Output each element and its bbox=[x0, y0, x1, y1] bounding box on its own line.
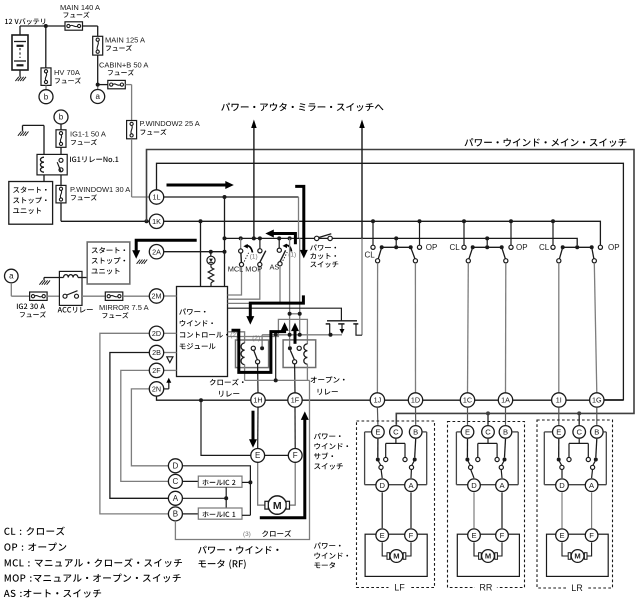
connector 1A bbox=[498, 393, 512, 407]
legend AS bbox=[4, 589, 101, 597]
wire stub OP2 bbox=[510, 221, 512, 245]
contact CL2 bbox=[462, 245, 466, 249]
wire nest 2N to D bbox=[131, 389, 168, 466]
node a (circle) bbox=[91, 90, 105, 104]
svg-text:LR: LR bbox=[571, 583, 583, 593]
arrow to mirror switch right bbox=[359, 120, 365, 239]
connector 1L bbox=[149, 190, 163, 204]
svg-text:M: M bbox=[273, 500, 282, 512]
label P.WINDOW1 30 A fuse bbox=[70, 185, 130, 201]
svg-text:E: E bbox=[380, 531, 385, 540]
svg-text:2N: 2N bbox=[152, 385, 161, 394]
node dot mirrorL bbox=[252, 236, 256, 240]
connector A (LR) bbox=[585, 479, 598, 492]
connector D (LF) bbox=[376, 479, 389, 492]
fuse IG2 30A bbox=[30, 292, 47, 300]
arrow to mirror switch left bbox=[251, 120, 257, 239]
connector 2B bbox=[149, 345, 163, 359]
coil open relay bbox=[304, 344, 308, 381]
coil close relay bbox=[241, 343, 245, 380]
connector 2A bbox=[149, 245, 163, 259]
connector E (RF) bbox=[251, 449, 265, 463]
node battery junction bbox=[44, 24, 48, 28]
node a junction bbox=[96, 83, 100, 87]
wire FET source rail bbox=[262, 335, 342, 346]
legend MOP bbox=[5, 574, 181, 583]
wire open relay to 1F bbox=[294, 364, 296, 393]
unit RR motor leads bbox=[474, 542, 502, 556]
svg-text:MAIN 140 A: MAIN 140 A bbox=[60, 3, 100, 12]
connector C (RF) bbox=[168, 474, 182, 488]
wire drop to 1J bbox=[376, 263, 378, 393]
svg-text:a: a bbox=[95, 92, 100, 101]
wire 1G to B-LR bbox=[596, 407, 598, 425]
switch AS bbox=[277, 238, 285, 265]
switch MCL bbox=[239, 238, 244, 266]
wire 1J to E-LF bbox=[376, 407, 379, 425]
wire switch rail bbox=[225, 238, 578, 245]
unit RR E blade bbox=[465, 439, 474, 478]
wire 1K rail bbox=[164, 221, 601, 245]
wire 2D to module bbox=[164, 332, 177, 334]
svg-text:M: M bbox=[574, 552, 580, 561]
fuse MAIN 125A bbox=[93, 36, 103, 55]
label AS bbox=[270, 262, 280, 271]
wire open relay drive bbox=[228, 319, 308, 344]
svg-text:2A: 2A bbox=[152, 247, 161, 256]
wire outer (1K net to C pins) bbox=[147, 150, 635, 425]
wire link 313 bbox=[288, 312, 302, 316]
ground IG1 bbox=[18, 125, 44, 154]
svg-text:D: D bbox=[379, 481, 385, 490]
box start-stop unit 2 bbox=[87, 242, 130, 284]
wire AS to module bbox=[228, 266, 281, 304]
contact open relay bbox=[288, 346, 301, 364]
svg-text:(1): (1) bbox=[250, 253, 258, 260]
motor LR bbox=[568, 550, 587, 563]
svg-text:HV 70A: HV 70A bbox=[54, 68, 80, 77]
wire fuse to relay bbox=[60, 147, 62, 154]
wire E return bbox=[201, 400, 251, 455]
svg-text:RR: RR bbox=[479, 583, 492, 593]
marker arrow 2N bbox=[164, 378, 172, 389]
label (1) MCL bbox=[250, 253, 258, 260]
connector F (RF) bbox=[288, 449, 302, 463]
label P.WINDOW2 25 A fuse bbox=[140, 119, 200, 135]
unit LF lower box bbox=[365, 534, 427, 576]
connector 1D bbox=[408, 393, 422, 407]
svg-text:1I: 1I bbox=[556, 396, 562, 405]
label power cut switch bbox=[310, 244, 338, 267]
label RR bbox=[475, 583, 497, 593]
connector F2 (LF) bbox=[405, 529, 418, 542]
unit LR inner box bbox=[544, 432, 606, 485]
connector E2 (LR) bbox=[556, 529, 569, 542]
svg-text:E: E bbox=[375, 428, 380, 437]
node dot OP1 bbox=[418, 219, 422, 223]
relay IG1 No.1 bbox=[37, 154, 67, 175]
label OP2 bbox=[516, 243, 528, 252]
node dot CL1 bbox=[371, 219, 375, 223]
node dot MCL bbox=[239, 236, 243, 240]
svg-text:1K: 1K bbox=[152, 217, 161, 226]
label IG2 30 A fuse bbox=[17, 304, 46, 318]
label MAIN 140 A fuse bbox=[60, 3, 100, 18]
contact OP1 bbox=[417, 245, 421, 249]
svg-text:CL: CL bbox=[539, 243, 550, 252]
node dot LED tap bbox=[209, 250, 213, 254]
wire 1L drop to power cut bbox=[298, 197, 300, 238]
connector B (RR) bbox=[499, 426, 512, 439]
label OP3 bbox=[608, 243, 620, 252]
wire ACC to MIRROR fuse bbox=[82, 295, 105, 297]
unit LF inner box bbox=[365, 432, 427, 485]
wire open relay feed bbox=[289, 238, 291, 346]
door unit LR dashed box bbox=[537, 420, 613, 588]
label CL3 bbox=[539, 243, 550, 252]
fuse MAIN 140A bbox=[65, 22, 83, 30]
svg-text:M: M bbox=[485, 552, 491, 561]
wire coil to unit bbox=[43, 175, 45, 182]
legend MCL bbox=[5, 558, 182, 567]
wire common up bbox=[275, 335, 277, 381]
wire nest 2D to B bbox=[100, 333, 168, 514]
unit LR C switch bbox=[567, 439, 591, 462]
label MIRROR 7.5 A fuse bbox=[99, 303, 149, 319]
wire A link bbox=[182, 487, 228, 508]
label close path bbox=[262, 530, 291, 537]
svg-text:A: A bbox=[173, 494, 179, 503]
wire drop to 1C bbox=[467, 263, 470, 393]
wire drop to 1A bbox=[505, 263, 507, 393]
svg-text:C: C bbox=[576, 428, 582, 437]
wire center stub 2 bbox=[486, 238, 488, 245]
svg-text:OP: OP bbox=[608, 243, 620, 252]
svg-text:1G: 1G bbox=[592, 396, 602, 405]
wire HV branch bbox=[45, 26, 47, 68]
svg-text:b: b bbox=[59, 113, 64, 122]
unit LR B blade bbox=[591, 439, 598, 478]
wire C to IC2 bbox=[182, 480, 198, 482]
wire 1I to E-LR bbox=[558, 407, 560, 425]
svg-text:(2): (2) bbox=[230, 332, 238, 339]
connector 1H bbox=[251, 393, 265, 407]
label MCL bbox=[228, 265, 244, 274]
connector A (RR) bbox=[496, 479, 509, 492]
contact CL1 bbox=[371, 245, 375, 249]
wire MAIN125 down bbox=[97, 55, 99, 89]
connector E2 (RR) bbox=[468, 529, 481, 542]
svg-text:1J: 1J bbox=[374, 396, 382, 405]
connector C (LR) bbox=[573, 426, 586, 439]
label open relay bbox=[311, 376, 345, 395]
node dot E-return bbox=[199, 398, 203, 402]
connector B (LF) bbox=[409, 426, 422, 439]
svg-text:1A: 1A bbox=[501, 396, 510, 405]
label power window sub switch bbox=[314, 433, 348, 470]
svg-text:MAIN 125 A: MAIN 125 A bbox=[105, 35, 145, 44]
node dot CL2 bbox=[462, 219, 466, 223]
svg-text:a: a bbox=[9, 272, 14, 281]
module power window control bbox=[177, 287, 228, 377]
unit RR D to E2 bbox=[473, 492, 475, 528]
label close relay bbox=[210, 379, 244, 397]
label 12V battery bbox=[5, 18, 45, 24]
svg-text:1F: 1F bbox=[291, 396, 300, 405]
label (3) bbox=[243, 531, 251, 538]
box start-stop unit 1 bbox=[9, 182, 53, 225]
svg-text:MIRROR 7.5 A: MIRROR 7.5 A bbox=[99, 303, 149, 312]
switch rocker group3 bbox=[557, 245, 597, 263]
wire stub OP1 bbox=[419, 221, 421, 245]
wire inner (1L net to 1G) bbox=[157, 163, 624, 399]
box hall IC1 bbox=[198, 508, 242, 519]
node dot AS bbox=[277, 236, 281, 240]
marker triangle 2B bbox=[167, 357, 173, 363]
connector B (LR) bbox=[591, 426, 604, 439]
connector E2 (LF) bbox=[376, 529, 389, 542]
node dot center1 bbox=[394, 236, 398, 240]
node dot 2A-end bbox=[223, 250, 227, 254]
svg-text:2F: 2F bbox=[152, 366, 161, 375]
svg-text:CABIN+B 50 A: CABIN+B 50 A bbox=[99, 61, 148, 70]
unit LF A to F2 bbox=[410, 492, 412, 528]
fuse HV 70A bbox=[41, 68, 51, 86]
contact OP3 bbox=[598, 245, 602, 249]
svg-text:D: D bbox=[173, 461, 179, 470]
wire 2N to 1H row bbox=[157, 396, 252, 400]
connector 1I bbox=[552, 393, 566, 407]
svg-text:CL: CL bbox=[365, 251, 376, 260]
svg-text:B: B bbox=[503, 428, 508, 437]
node dot center2 bbox=[485, 236, 489, 240]
relay box close bbox=[236, 340, 269, 368]
motor RR bbox=[479, 550, 498, 563]
wire B return to coils bbox=[175, 380, 309, 539]
thick arrow switch rail left bbox=[265, 230, 295, 245]
wire 1C to E-RR bbox=[467, 407, 469, 425]
connector A (LF) bbox=[405, 479, 418, 492]
fuse P.WINDOW2 25A bbox=[127, 121, 137, 139]
svg-text:P.WINDOW2 25 A: P.WINDOW2 25 A bbox=[140, 119, 200, 128]
svg-text:B: B bbox=[173, 510, 178, 519]
label power window motor RF bbox=[198, 546, 278, 569]
wire drop to 1I bbox=[558, 263, 560, 393]
resistor R (LED) bbox=[208, 264, 214, 286]
node dots source rail bbox=[274, 333, 333, 337]
label OP1 bbox=[426, 243, 438, 252]
label power window main switch bbox=[465, 138, 627, 147]
connector 1C bbox=[460, 393, 474, 407]
svg-text:F: F bbox=[500, 531, 505, 540]
label IG1-1 50 A fuse bbox=[70, 129, 106, 145]
wire C-RR stub bbox=[487, 413, 489, 425]
svg-text:OP: OP bbox=[516, 243, 528, 252]
node dot OP2 bbox=[509, 219, 513, 223]
wire D to ICs bbox=[182, 466, 250, 516]
svg-text:OP: OP bbox=[426, 243, 438, 252]
wire E-F link bbox=[265, 454, 289, 456]
unit LF D to E2 bbox=[381, 492, 383, 528]
relay box open bbox=[283, 340, 316, 368]
fuse MIRROR 7.5A bbox=[105, 292, 123, 300]
arrow actuate MCL bbox=[243, 244, 252, 252]
thick arrow 1H to E bbox=[249, 411, 257, 448]
node a2 (circle) bbox=[5, 269, 19, 283]
ground at battery bbox=[15, 70, 26, 81]
svg-text:D: D bbox=[471, 481, 477, 490]
wire IC1 out bbox=[242, 514, 250, 516]
wire MCL to module bbox=[228, 267, 242, 295]
connector 1F bbox=[288, 393, 302, 407]
svg-text:2D: 2D bbox=[152, 329, 161, 338]
connector E (LR) bbox=[553, 426, 566, 439]
wire MAIN140 to MAIN125 bbox=[83, 26, 98, 36]
wire drop to 1D bbox=[414, 263, 416, 393]
link dotted AS bbox=[283, 252, 287, 261]
label LR bbox=[566, 583, 588, 593]
svg-text:E: E bbox=[255, 451, 260, 460]
wire coil common bbox=[245, 378, 310, 382]
svg-text:C: C bbox=[393, 428, 399, 437]
unit RR inner box bbox=[456, 432, 518, 485]
unit LR A to F2 bbox=[591, 492, 593, 528]
node b2 (circle) bbox=[54, 110, 68, 124]
LED indicator bbox=[207, 252, 215, 265]
box hall IC2 bbox=[198, 476, 242, 487]
wire 2M to module bbox=[164, 295, 177, 297]
wire B to IC1 bbox=[182, 513, 198, 515]
node junction 1K-left bbox=[145, 219, 149, 223]
wire power cut to FET drain bbox=[361, 238, 363, 335]
connector 2N bbox=[149, 382, 163, 396]
legend CL bbox=[4, 527, 64, 536]
wire MOP to module bbox=[228, 267, 260, 300]
svg-text:AS: AS bbox=[270, 262, 280, 271]
node dot CL3 bbox=[551, 219, 555, 223]
label (2) open bbox=[252, 335, 260, 342]
contact close relay bbox=[251, 346, 264, 364]
contact CL3 bbox=[551, 245, 555, 249]
node dot C-RR tap bbox=[486, 411, 490, 415]
svg-text:IG1-1 50 A: IG1-1 50 A bbox=[70, 129, 106, 138]
svg-text:F: F bbox=[589, 531, 594, 540]
svg-text:LF: LF bbox=[394, 583, 405, 593]
label CL1 bbox=[365, 251, 376, 260]
door unit RR dashed box bbox=[448, 422, 525, 588]
wire battery to MAIN140 fuse bbox=[20, 26, 65, 35]
wire F to motor bbox=[287, 462, 295, 505]
wire 2B to module bbox=[164, 352, 177, 354]
wire 2A taps bbox=[164, 251, 225, 253]
fuse CABIN+B 50A bbox=[98, 80, 126, 88]
wire 1L to module bbox=[224, 197, 226, 287]
unit LF E blade bbox=[376, 439, 383, 478]
label power outer mirror switch bbox=[221, 103, 383, 112]
connector 1G bbox=[590, 393, 604, 407]
svg-text:F: F bbox=[409, 531, 414, 540]
switch rocker group1 bbox=[376, 245, 418, 263]
connector D (LR) bbox=[556, 479, 569, 492]
svg-text:B: B bbox=[413, 428, 418, 437]
wire nest 2B to A bbox=[110, 353, 168, 499]
svg-text:P.WINDOW1 30 A: P.WINDOW1 30 A bbox=[70, 185, 130, 194]
unit LR D to E2 bbox=[561, 492, 563, 528]
node dot 1L tap bbox=[223, 195, 227, 199]
wire drop to 1G bbox=[594, 263, 597, 393]
unit LF C switch bbox=[384, 439, 408, 462]
legend OP bbox=[4, 543, 66, 551]
unit LR E blade bbox=[557, 439, 564, 478]
wire close relay drive bbox=[228, 332, 245, 343]
wire 1L rail bbox=[164, 196, 299, 198]
wire HV to b bbox=[45, 85, 47, 89]
fuse P.WINDOW1 30A bbox=[56, 185, 66, 203]
node dot 1K tap bbox=[199, 219, 203, 223]
connector D (RF) bbox=[168, 459, 182, 473]
connector 1J bbox=[370, 393, 384, 407]
door unit LF dashed box bbox=[357, 421, 435, 588]
wire 1F to F bbox=[294, 407, 296, 448]
label MOP bbox=[245, 265, 262, 274]
svg-text:F: F bbox=[293, 451, 298, 460]
wire 1H row line bbox=[251, 399, 623, 401]
label (1) AS bbox=[288, 251, 296, 258]
wire nest 2F to C bbox=[121, 370, 169, 481]
thick arrow 1L rail bbox=[167, 181, 234, 189]
node dot switchline start bbox=[223, 236, 227, 240]
relay ACC bbox=[59, 271, 82, 305]
svg-text:E: E bbox=[559, 531, 564, 540]
label CABIN+B 50 A fuse bbox=[99, 61, 148, 76]
svg-text:MOP: MOP bbox=[245, 265, 262, 274]
node dot C-LR tap bbox=[577, 411, 581, 415]
wire a2 to IG2 fuse bbox=[11, 283, 29, 296]
wire stub CL2 bbox=[463, 221, 465, 245]
wire FET source feed bbox=[299, 238, 301, 334]
switch rocker group2 bbox=[466, 245, 508, 263]
connector C (RR) bbox=[482, 426, 495, 439]
unit LR lower box bbox=[547, 534, 609, 576]
unit RR A to F2 bbox=[501, 492, 503, 528]
unit RR B blade bbox=[499, 439, 506, 478]
label MAIN 125 A fuse bbox=[105, 35, 145, 51]
node b (circle) bbox=[39, 90, 53, 104]
connector 1K bbox=[149, 214, 163, 228]
arrow actuate AS bbox=[283, 244, 292, 252]
thick arrow close return bbox=[260, 411, 309, 517]
connector F2 (LR) bbox=[585, 529, 598, 542]
thick arrow open relay up bbox=[291, 323, 299, 344]
wire stub CL3 bbox=[552, 221, 554, 245]
wire stub CL1 bbox=[372, 221, 374, 245]
wire b2 to IG1-1 fuse bbox=[60, 124, 62, 130]
svg-text:E: E bbox=[471, 531, 476, 540]
svg-text:B: B bbox=[594, 428, 599, 437]
label ACC relay bbox=[58, 307, 93, 313]
motor LF bbox=[387, 550, 406, 563]
unit LF B blade bbox=[409, 439, 416, 478]
unit LF motor leads bbox=[382, 542, 411, 556]
wire FET gate to module bbox=[228, 308, 342, 321]
label CL2 bbox=[450, 243, 461, 252]
label power window motor side bbox=[314, 542, 348, 568]
thick arrow 2A-ground bbox=[132, 240, 197, 263]
wire MIRROR to 2M bbox=[123, 295, 150, 297]
wire 1K to module bbox=[200, 221, 202, 286]
switch MOP bbox=[258, 238, 266, 266]
switch power cut bbox=[315, 234, 333, 241]
